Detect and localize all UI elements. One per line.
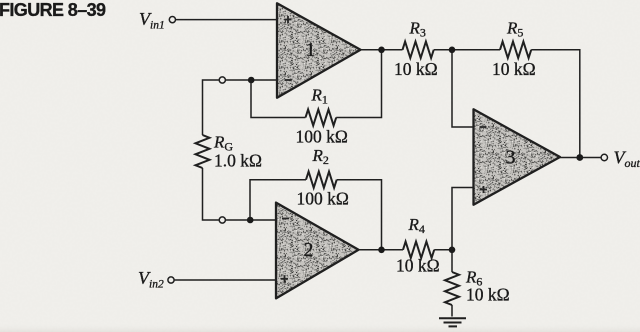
wire node A to op-amp 3 inverting input — [452, 50, 474, 127]
op-amp 2 — [276, 203, 359, 299]
resistor R4 — [403, 242, 434, 258]
wire op-amp 2 output — [359, 249, 404, 251]
wire R4 to node B — [434, 249, 452, 251]
op-amp 1 — [277, 3, 361, 97]
wire node B to op-amp 3 noninverting input — [452, 188, 474, 250]
wire Vin1 to op-amp 1 noninverting input — [176, 19, 277, 21]
wire op-amp 1 inverting input — [226, 79, 278, 81]
resistor R5 — [500, 42, 531, 58]
input terminal Vin1 — [169, 17, 175, 23]
wire R6 to ground — [451, 305, 453, 317]
terminal RG bottom — [219, 217, 225, 223]
junction node B (R4/R6) — [449, 247, 456, 254]
terminal RG top — [219, 77, 225, 83]
junction at op-amp 3 output — [576, 154, 583, 161]
wire R3 to R5 — [434, 49, 500, 51]
resistor R6 — [445, 272, 459, 305]
ground — [439, 318, 466, 326]
resistor R2 — [306, 172, 337, 188]
junction at op-amp 1 output — [378, 47, 385, 54]
junction at op-amp 2 inverting input — [247, 217, 254, 224]
wire op-amp 1 output — [361, 49, 403, 51]
junction at op-amp 1 inverting input — [248, 77, 255, 84]
wire R1 left (from inverting node of op-amp 1) — [251, 80, 306, 118]
resistor RG — [196, 135, 210, 168]
wire Vin2 to op-amp 2 noninverting input — [175, 279, 277, 281]
wire R2 right down to op-amp 2 output node — [337, 180, 382, 250]
wire R5 to output node (right feedback rail) — [531, 50, 580, 158]
wire op-amp 2 inverting input — [226, 219, 277, 221]
op-amp 3 — [474, 109, 561, 204]
junction node A (R3/R5) — [449, 47, 456, 54]
output terminal Vout — [601, 154, 607, 160]
resistor R3 — [403, 42, 434, 58]
wire RG bottom link — [203, 168, 220, 220]
wire RG top link — [203, 80, 220, 135]
junction at op-amp 2 output — [378, 247, 385, 254]
input terminal Vin2 — [168, 277, 174, 283]
resistor R1 — [306, 109, 337, 125]
wire op-amp 3 output — [560, 157, 601, 159]
wire R1 right to op-amp 1 output node — [336, 50, 381, 118]
wire node B to R6 — [451, 250, 453, 272]
wire R2 left (from inverting node of op-amp 2) — [250, 180, 306, 220]
scanned page shading (bottom edge) — [0, 323, 640, 332]
